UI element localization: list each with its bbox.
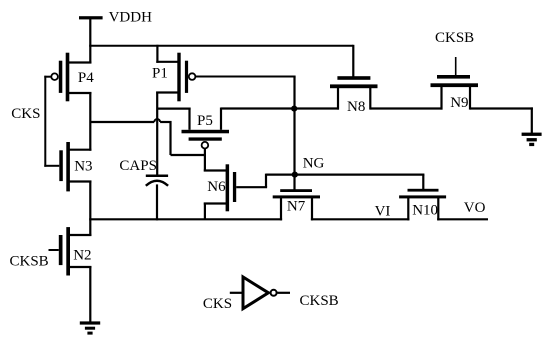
wire P1 source down to CAPS top — [156, 92, 158, 176]
svg-text:VO: VO — [464, 200, 486, 216]
svg-text:CKS: CKS — [11, 106, 40, 122]
wire NG column down to N7 gate — [293, 77, 295, 190]
transistor N2 — [49, 227, 92, 275]
wire P5 drain over to N8 source — [221, 107, 339, 109]
transistor N10 — [399, 189, 446, 221]
wire NG horizontal to N10 gate — [266, 175, 424, 190]
wire N6 source down to bottom rail — [204, 203, 206, 220]
node NG junction dot — [292, 172, 298, 178]
svg-text:P1: P1 — [152, 65, 168, 81]
svg-text:CKSB: CKSB — [10, 254, 49, 270]
power symbol VDDH — [79, 16, 103, 63]
ground under N2 — [80, 321, 100, 334]
wire P1 gate to NG column — [196, 76, 296, 78]
junction dot NG column / N8 wire — [291, 106, 297, 112]
wire N9 drain to right ground — [470, 107, 533, 133]
svg-text:N6: N6 — [207, 179, 226, 195]
svg-text:N9: N9 — [450, 95, 468, 111]
wire N2 source to ground — [89, 266, 91, 322]
svg-text:CKSB: CKSB — [435, 30, 474, 46]
transistor P4 — [44, 53, 91, 102]
svg-text:N7: N7 — [287, 199, 306, 215]
wire bottom rail left segment — [89, 218, 282, 220]
transistor N3 — [59, 142, 91, 191]
svg-text:N3: N3 — [74, 159, 92, 175]
wire VO segment from N10 — [437, 218, 488, 220]
wire rail to P1 drain — [156, 45, 158, 63]
svg-text:N2: N2 — [73, 248, 91, 264]
inverter U1 — [230, 277, 290, 309]
wire N8 drain to N9 source — [370, 107, 442, 109]
wire N6 gate staircase to NG — [236, 174, 267, 188]
svg-text:NG: NG — [303, 155, 325, 171]
svg-text:VI: VI — [375, 204, 391, 220]
wire boot node y=122 with hop over CAPS column — [90, 119, 206, 155]
svg-text:CAPS: CAPS — [119, 158, 157, 174]
transistor N6 — [204, 164, 236, 211]
capacitor CAPS — [146, 175, 168, 221]
svg-text:N10: N10 — [412, 203, 438, 219]
svg-text:N8: N8 — [347, 99, 365, 115]
svg-text:CKSB: CKSB — [300, 293, 339, 309]
transistor N8 — [330, 76, 378, 109]
wire left column x=90 P4 to N3 — [89, 92, 91, 151]
wire CKS net: P4 gate down to N3 gate — [44, 76, 59, 167]
wire VI segment N7 to N10 — [311, 218, 410, 220]
svg-text:P5: P5 — [197, 113, 213, 129]
svg-text:P4: P4 — [78, 70, 94, 86]
ground right — [522, 133, 542, 147]
transistor P1 — [156, 53, 195, 102]
wire top rail from VDDH to N8 gate — [89, 45, 353, 77]
transistor N9 — [431, 57, 479, 110]
svg-text:VDDH: VDDH — [109, 10, 152, 26]
transistor P5 — [182, 108, 230, 172]
wire P5 source: from P1-source column to P5 left lead — [157, 107, 190, 109]
svg-text:CKS: CKS — [203, 296, 232, 312]
wire left column x=90 N3 through bottom rail to N2 — [89, 181, 91, 237]
transistor N7 — [273, 189, 320, 220]
